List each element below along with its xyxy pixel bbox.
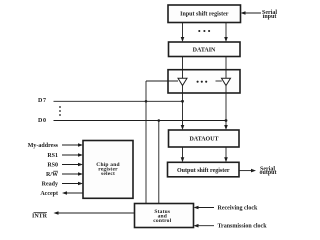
arrowhead DATAOUT to OSR bit7 [181, 157, 185, 162]
box DATAOUT [169, 130, 240, 147]
junction dot enable line on D7 [145, 100, 148, 103]
wire DATAOUT to OSR bit0 [225, 147, 227, 161]
wire driver enable [146, 80, 178, 82]
overline of INTR [34, 212, 48, 214]
svg-text:output: output [259, 170, 276, 176]
arrowhead INTR (points left) [54, 211, 59, 215]
tri-state driver bit0 [222, 78, 231, 85]
wire D0 bus line [54, 120, 227, 122]
wire RS0 [62, 164, 80, 166]
svg-text:RS0: RS0 [47, 163, 58, 169]
wire serial output [239, 170, 253, 172]
svg-text:select: select [101, 171, 115, 177]
wire Transmission clock [197, 225, 214, 227]
arrowhead DATAOUT to OSR bit0 [224, 157, 228, 162]
svg-text:DATAIN: DATAIN [193, 47, 216, 53]
svg-text:Transmission clock: Transmission clock [218, 224, 268, 230]
svg-text:My-address: My-address [28, 143, 59, 149]
junction dot D7 / bit7 line [181, 100, 184, 103]
svg-text:Output shift register: Output shift register [177, 168, 230, 174]
arrowhead Ready [78, 182, 83, 186]
wire vertical control B [158, 121, 160, 204]
box Status and control [135, 204, 194, 228]
wire serial input [243, 12, 261, 14]
svg-text:INTR: INTR [32, 214, 48, 220]
svg-text:Accept: Accept [40, 191, 58, 197]
wire vertical control A [145, 81, 147, 204]
tri-state driver bit7 [178, 78, 187, 85]
arrowhead serial input (left, into ISR) [241, 11, 246, 15]
wire DATAOUT to OSR bit7 [182, 147, 184, 161]
svg-text:Receiving clock: Receiving clock [218, 206, 258, 212]
vertical ellipsis dots between D7 and D0 [59, 106, 61, 108]
box DATAIN [169, 42, 241, 57]
ellipsis dots between ISR and DATAIN [198, 30, 200, 32]
wire driver output bit0 down to DATAOUT [225, 86, 227, 129]
svg-text:D0: D0 [38, 118, 47, 124]
junction dot control B on D0 [158, 119, 161, 122]
arrowhead RS0 [78, 163, 83, 167]
wire driver output bit7 down to DATAOUT [182, 86, 184, 129]
wire Receiving clock [197, 207, 214, 209]
arrowhead serial output (right) [251, 169, 256, 173]
arrowhead Receiving clock (points left into box) [194, 206, 199, 210]
svg-text:R/W: R/W [46, 172, 58, 178]
arrowhead bit0 into DATAOUT [224, 125, 228, 130]
wire Ready [62, 183, 80, 185]
svg-text:DATAOUT: DATAOUT [189, 137, 218, 143]
arrowhead My-address [78, 143, 83, 147]
wire DATAIN to drivers bit0 [225, 57, 227, 79]
wire INTR [58, 212, 135, 214]
box Chip and register select [83, 141, 133, 199]
wire enable stub to driver bit0 [216, 80, 222, 82]
arrowhead ISR to DATAIN bit7 [181, 37, 185, 42]
box Output shift register [168, 162, 240, 177]
svg-text:D7: D7 [38, 98, 47, 104]
arrowhead R/W [78, 172, 83, 176]
wire Accept [66, 192, 83, 194]
overline of W in R/W [53, 170, 58, 172]
arrowhead Transmission clock (points left into box) [194, 224, 199, 228]
svg-text:input: input [263, 14, 277, 20]
wire D7 bus line [54, 100, 183, 102]
wire DATAIN to drivers bit7 [182, 57, 184, 79]
svg-text:Ready: Ready [42, 182, 58, 188]
box Input shift register [168, 5, 241, 23]
arrowhead ISR to DATAIN bit0 [224, 37, 228, 42]
svg-text:control: control [153, 218, 171, 224]
box bus drivers [168, 70, 240, 93]
svg-text:RS1: RS1 [47, 153, 58, 159]
svg-text:Input shift register: Input shift register [180, 11, 229, 17]
wire My-address [62, 144, 80, 146]
wire ISR to DATAIN bit0 [225, 23, 227, 41]
ellipsis dots inside driver box [197, 81, 199, 83]
wire RS1 [62, 154, 80, 156]
wire ISR to DATAIN bit7 [182, 23, 184, 41]
arrowhead RS1 [78, 153, 83, 157]
arrowhead bit7 into DATAOUT [181, 125, 185, 130]
wire R/W [62, 173, 80, 175]
junction dot D0 / bit0 line [225, 119, 228, 122]
arrowhead Accept (points left) [62, 191, 67, 195]
